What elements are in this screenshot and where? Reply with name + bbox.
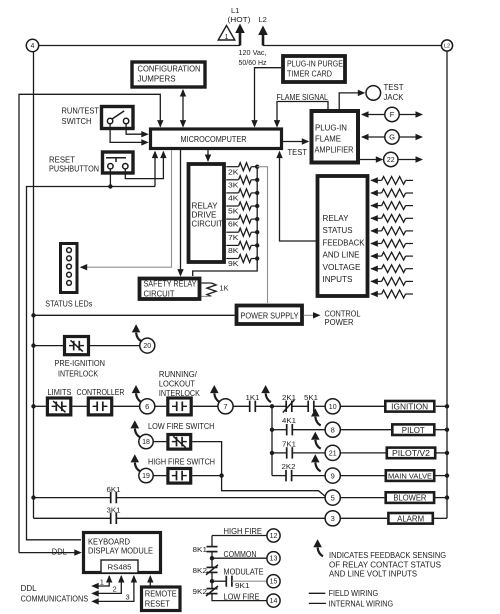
wire blower row — [34, 497, 111, 499]
svg-text:INDICATES FEEDBACK SENSING: INDICATES FEEDBACK SENSING — [329, 551, 446, 560]
node 9 — [325, 468, 340, 483]
relay coil 5K — [226, 205, 238, 207]
svg-text:SAFETY RELAY: SAFETY RELAY — [144, 280, 198, 289]
wire control power output (internal) — [304, 314, 319, 316]
node 12 — [267, 529, 280, 542]
relay coil 7K — [226, 231, 238, 233]
svg-text:CIRCUIT: CIRCUIT — [144, 290, 175, 299]
svg-text:MAIN VALVE: MAIN VALVE — [388, 472, 432, 481]
node 18 — [139, 434, 153, 448]
svg-text:RELAY: RELAY — [323, 214, 350, 223]
wire 5K1 to node 10 — [314, 405, 325, 407]
wire main valve row — [272, 475, 286, 477]
wire high fire row — [212, 535, 267, 537]
svg-text:8: 8 — [331, 425, 335, 434]
svg-text:L2: L2 — [444, 43, 450, 49]
svg-text:1: 1 — [100, 578, 104, 587]
svg-text:8K: 8K — [228, 246, 239, 255]
relay coil 2K — [226, 166, 238, 168]
wire remote reset to module — [149, 576, 151, 587]
svg-text:14: 14 — [270, 598, 278, 605]
plug-in purge timer card box — [283, 56, 345, 82]
relay coil 9K — [226, 258, 238, 260]
svg-text:L2: L2 — [259, 15, 267, 24]
status LED 2 — [67, 256, 72, 261]
svg-text:INTERNAL WIRING: INTERNAL WIRING — [329, 600, 394, 609]
wire alarm to L2 rail — [433, 517, 447, 519]
svg-text:7K1: 7K1 — [282, 439, 296, 448]
svg-text:L1: L1 — [231, 6, 239, 15]
ignition output box — [385, 401, 434, 412]
controller contact box — [88, 398, 111, 415]
wire node 21 to pilot/v2 box — [340, 452, 385, 454]
svg-text:AND LINE: AND LINE — [323, 251, 360, 260]
node 21 — [325, 445, 340, 460]
svg-text:PRE-IGNITION: PRE-IGNITION — [55, 359, 106, 368]
wire purge timer to microcomputer — [255, 68, 282, 127]
wire flame signal (amplifier to microcomputer) — [277, 102, 328, 127]
wire reset rail up to microcomputer — [154, 152, 156, 187]
wire L2 line to node L2 — [263, 45, 441, 47]
svg-text:4K1: 4K1 — [282, 416, 296, 425]
node coil 7K to bus — [255, 230, 259, 234]
node coil 9K to bus — [255, 256, 259, 260]
wire amplifier to test jack — [339, 93, 363, 110]
node common junction — [210, 556, 214, 560]
wire microcomputer to relay drive — [207, 150, 209, 161]
node 6 — [140, 399, 155, 414]
svg-text:FIELD WIRING: FIELD WIRING — [329, 589, 379, 598]
run/test switch symbol — [107, 118, 112, 123]
node coil 6K to bus — [255, 217, 259, 221]
feedback arrow node 9 — [315, 463, 320, 472]
node pre-ignition rail junction — [31, 343, 35, 347]
wire L2 right rail — [446, 51, 448, 518]
contact 2K2 — [285, 470, 287, 481]
svg-text:5K1: 5K1 — [304, 393, 318, 402]
node 14 — [267, 594, 280, 607]
svg-text:RESET: RESET — [145, 600, 170, 609]
relay coil 4K — [226, 192, 238, 194]
wire pilot row — [272, 429, 287, 431]
reset pushbutton S2 box — [103, 152, 134, 173]
node coil 4K to bus — [255, 191, 259, 195]
wire node 9 to main valve box — [340, 475, 384, 477]
wire ddl comm 1 — [93, 576, 109, 586]
reset pushbutton symbol — [108, 164, 113, 169]
wire 2K row to power supply (internal) — [257, 167, 267, 303]
wire 8K2 to modulate junction — [211, 573, 213, 589]
node 13 — [267, 552, 280, 565]
wire reset right contact to microcomputer — [125, 152, 163, 179]
feedback sense resistor input 3 — [370, 202, 378, 208]
svg-text:RESET: RESET — [49, 156, 75, 165]
wire ddl comm 3 — [93, 576, 134, 601]
svg-text:2K: 2K — [228, 167, 239, 176]
svg-text:COMMUNICATIONS: COMMUNICATIONS — [21, 595, 89, 604]
L1 (HOT) terminal arrow — [239, 31, 242, 46]
svg-text:CIRCUIT: CIRCUIT — [192, 220, 224, 229]
wire 9K2 to low fire row — [212, 594, 267, 601]
node L2 — [441, 40, 452, 51]
svg-text:5K: 5K — [228, 207, 239, 216]
node 5 — [325, 490, 340, 505]
svg-text:19: 19 — [142, 473, 150, 480]
plug-in flame amplifier box — [312, 111, 359, 163]
svg-text:MODULATE: MODULATE — [224, 568, 264, 577]
keyboard display module box — [84, 533, 161, 573]
feedback arrow node 18 — [135, 429, 140, 438]
remote reset box — [142, 587, 181, 611]
wire node 18 to low fire switch — [153, 441, 166, 443]
wire common row — [212, 557, 267, 559]
svg-text:FLAME SIGNAL: FLAME SIGNAL — [277, 93, 329, 102]
wire pre-ignition row — [34, 345, 140, 347]
wire low fire switch to fire feed — [192, 442, 221, 476]
svg-text:INPUTS: INPUTS — [323, 275, 353, 284]
svg-text:3K1: 3K1 — [107, 506, 121, 515]
svg-text:RELAY: RELAY — [192, 202, 219, 211]
svg-text:20: 20 — [143, 343, 151, 350]
contact 3K1 — [110, 513, 112, 524]
svg-text:TEST: TEST — [384, 83, 404, 92]
status LEDs box — [61, 244, 78, 293]
legend internal wiring — [309, 602, 326, 604]
relay status feedback box — [318, 176, 368, 296]
svg-text:PILOT/V2: PILOT/V2 — [392, 449, 431, 458]
svg-text:3: 3 — [331, 514, 335, 523]
svg-text:TIMER CARD: TIMER CARD — [287, 70, 332, 79]
feedback arrow at ignition junction — [266, 393, 271, 402]
feedback arrow node 21 — [315, 440, 320, 449]
svg-text:7: 7 — [223, 402, 227, 411]
svg-text:7K: 7K — [228, 233, 239, 242]
svg-text:10: 10 — [329, 404, 337, 411]
relay coil 3K — [226, 179, 238, 181]
feedback sense resistor input 10 — [370, 291, 378, 297]
svg-text:TEST: TEST — [288, 148, 308, 157]
svg-text:F: F — [390, 110, 395, 119]
wire L1 hot line from node 4 — [38, 45, 240, 47]
wire high fire switch to fire feed junction — [192, 475, 221, 477]
L2 terminal arrow — [262, 33, 265, 46]
wire 9K1 to node 15 (internal) — [232, 580, 267, 582]
svg-text:18: 18 — [142, 439, 150, 446]
feedback arrow node 8 — [315, 417, 320, 426]
svg-text:8K2: 8K2 — [193, 566, 208, 575]
svg-text:DRIVE: DRIVE — [192, 211, 217, 220]
svg-text:9K: 9K — [228, 259, 239, 268]
wire limits row — [34, 405, 46, 407]
svg-text:INTERLOCK: INTERLOCK — [58, 370, 99, 379]
svg-text:9: 9 — [331, 471, 335, 480]
svg-text:AMPLIFIER: AMPLIFIER — [315, 146, 354, 155]
svg-text:2K2: 2K2 — [282, 462, 296, 471]
svg-text:POWER: POWER — [325, 318, 354, 327]
contact 2K1 — [272, 405, 286, 407]
wire 8K1 to common junction — [211, 552, 213, 567]
svg-text:21: 21 — [329, 450, 337, 457]
node 22 — [359, 159, 382, 161]
svg-text:4K: 4K — [228, 194, 239, 203]
svg-text:5: 5 — [331, 493, 335, 502]
node F (flame rod terminal) — [362, 114, 385, 116]
wire left rail to microcomputer (from x=19) — [19, 94, 160, 552]
main valve output box — [386, 470, 434, 481]
svg-text:PILOT: PILOT — [402, 426, 425, 435]
wire 1K1 to junction — [255, 405, 272, 407]
contact 4K1 — [286, 424, 288, 435]
wire node 6 to running/lockout interlock — [155, 405, 167, 407]
wire node 7 to contact 1K1 — [233, 405, 250, 407]
contact 8K2 — [207, 566, 218, 568]
svg-text:REMOTE: REMOTE — [145, 590, 177, 599]
wire power supply to left rail — [34, 314, 235, 316]
feedback arrow node 19 — [135, 463, 140, 472]
wire relay status feedback to microcomputer — [280, 152, 317, 241]
wire ddl comm 2 — [93, 576, 121, 593]
configuration jumpers box — [132, 62, 205, 87]
svg-text:G: G — [389, 133, 395, 142]
svg-text:PLUG-IN PURGE: PLUG-IN PURGE — [287, 60, 343, 69]
svg-text:MICROCOMPUTER: MICROCOMPUTER — [181, 135, 247, 144]
feedback sense resistor input 7 — [370, 253, 378, 259]
node coil 3K to bus — [255, 178, 259, 182]
running/lockout interlock contact box — [168, 398, 191, 415]
feedback sense resistor input 5 — [370, 228, 378, 234]
svg-text:DDL: DDL — [21, 584, 38, 593]
svg-text:6: 6 — [145, 402, 149, 411]
svg-text:DISPLAY MODULE: DISPLAY MODULE — [88, 547, 153, 556]
svg-text:3: 3 — [126, 593, 130, 602]
node limits rail junction — [31, 404, 35, 408]
svg-text:RUNNING/: RUNNING/ — [159, 370, 198, 379]
pre-ignition interlock contact box — [65, 337, 89, 355]
node coil 2K to bus — [255, 165, 259, 169]
node 3 — [325, 511, 340, 526]
relay coil 6K — [226, 218, 238, 220]
node ignition junction — [270, 404, 274, 408]
node 4 (line voltage terminal) — [26, 39, 38, 51]
svg-text:AND LINE VOLT INPUTS: AND LINE VOLT INPUTS — [329, 570, 417, 579]
safety relay circuit box — [140, 279, 200, 300]
svg-text:120 Vac,: 120 Vac, — [239, 48, 267, 57]
status LED 1 — [67, 248, 72, 253]
node modulate junction — [210, 579, 214, 583]
feedback arrow node 6 — [136, 393, 141, 402]
node power rail junction — [31, 313, 35, 317]
svg-text:ALARM: ALARM — [397, 514, 424, 523]
wire limits to controller — [72, 405, 87, 407]
wire alarm row — [34, 517, 111, 519]
node 10 — [325, 399, 340, 414]
feedback sense resistor input 9 — [370, 278, 378, 284]
contact 8K1 — [207, 546, 218, 548]
node pilot/v2 junction — [270, 451, 274, 455]
wire pilot/v2 to L2 rail — [435, 452, 447, 454]
wire 2K2 to node 9 — [292, 475, 326, 477]
legend feedback arrow symbol — [318, 548, 323, 557]
blower output box — [386, 492, 434, 503]
wire microcomputer to status LEDs (internal) — [81, 150, 172, 267]
node 20 — [140, 338, 155, 353]
contact 5K1 — [307, 401, 309, 412]
wire test (microcomputer to amplifier) — [283, 141, 308, 143]
svg-text:9K2: 9K2 — [193, 587, 208, 596]
warning triangle 1 — [218, 26, 235, 41]
wire pilot/v2 row — [272, 452, 287, 454]
status LED 4 — [67, 272, 72, 277]
wire ignition junction down feed — [271, 406, 273, 475]
svg-text:FEEDBACK: FEEDBACK — [323, 238, 366, 247]
svg-text:(HOT): (HOT) — [228, 15, 252, 24]
relay coil 1K — [202, 282, 212, 284]
wire reset left contact to rail junction — [109, 169, 111, 187]
svg-text:BLOWER: BLOWER — [393, 494, 426, 503]
svg-text:HIGH FIRE SWITCH: HIGH FIRE SWITCH — [148, 458, 215, 467]
test jack — [366, 86, 381, 101]
svg-text:15: 15 — [270, 579, 278, 586]
svg-text:2: 2 — [113, 585, 117, 594]
pilot output box — [392, 424, 434, 435]
wire firing rate chain — [211, 536, 213, 547]
svg-text:22: 22 — [387, 157, 395, 164]
node coil 5K to bus — [255, 204, 259, 208]
svg-text:POWER SUPPLY: POWER SUPPLY — [241, 312, 300, 321]
node 19 — [139, 468, 153, 482]
wire config jumpers to microcomputer (double arrow) — [182, 90, 184, 126]
wire relay coil bus to safety relay — [193, 167, 258, 276]
feedback sense resistor input 4 — [370, 215, 378, 221]
run/test switch S1 box — [102, 107, 134, 129]
wire fire feed to blower — [222, 476, 326, 497]
power supply box — [237, 306, 303, 325]
node 7 — [218, 399, 233, 414]
wire 6K1 to node 5 — [116, 497, 325, 499]
svg-text:1K: 1K — [220, 284, 229, 293]
wire ignition to L2 rail — [436, 405, 447, 407]
svg-text:LIMITS: LIMITS — [48, 388, 72, 397]
svg-text:VOLTAGE: VOLTAGE — [323, 263, 361, 272]
alarm output box — [388, 513, 432, 524]
contact 9K2 — [207, 588, 218, 590]
wire DDL arrow into module — [19, 552, 80, 554]
svg-text:LOW FIRE SWITCH: LOW FIRE SWITCH — [148, 422, 215, 431]
wire node 10 to ignition box — [340, 405, 384, 407]
node fire feed junction — [219, 473, 223, 477]
svg-text:RS485: RS485 — [108, 563, 132, 572]
svg-text:4: 4 — [31, 43, 35, 50]
svg-text:STATUS: STATUS — [323, 226, 353, 235]
svg-text:OF RELAY CONTACT STATUS: OF RELAY CONTACT STATUS — [329, 560, 441, 569]
wire 4K1 to node 8 — [292, 429, 325, 431]
svg-text:2K1: 2K1 — [282, 393, 296, 402]
svg-text:13: 13 — [270, 556, 278, 563]
svg-text:PLUG-IN: PLUG-IN — [315, 124, 347, 133]
legend field wiring — [309, 592, 326, 594]
relay drive circuit box — [189, 164, 225, 262]
wire blower to L2 rail — [434, 497, 447, 499]
svg-text:COMMON: COMMON — [224, 550, 257, 559]
wire node 19 to high fire switch — [153, 475, 166, 477]
svg-text:SWITCH: SWITCH — [62, 117, 92, 126]
svg-text:FLAME: FLAME — [315, 135, 341, 144]
wire controller to node 6 — [113, 405, 139, 407]
svg-text:JACK: JACK — [384, 93, 405, 102]
status LED 5 — [67, 281, 72, 286]
status LED 3 — [67, 264, 72, 269]
limits contact box — [47, 398, 70, 415]
node coil 8K to bus — [255, 243, 259, 247]
contact 6K1 — [110, 492, 112, 503]
wire run/test to microcomputer — [110, 124, 147, 143]
wire reset rail (x=26.5) — [27, 187, 156, 540]
wire RLI to node 7 — [193, 405, 218, 407]
node pilot junction — [270, 428, 274, 432]
svg-text:RUN/TEST: RUN/TEST — [62, 107, 100, 116]
wire node4 down rail — [33, 51, 35, 518]
microcomputer U1 box — [151, 129, 282, 149]
svg-text:1: 1 — [225, 34, 229, 41]
svg-text:6K: 6K — [228, 220, 239, 229]
svg-text:12: 12 — [270, 533, 278, 540]
svg-text:CONTROLLER: CONTROLLER — [77, 388, 125, 397]
svg-text:6K1: 6K1 — [107, 485, 121, 494]
feedback sense resistor input 2 — [370, 190, 378, 196]
svg-text:INTERLOCK: INTERLOCK — [159, 389, 201, 398]
svg-text:LOCKOUT: LOCKOUT — [159, 380, 195, 389]
node G (ground terminal) — [362, 136, 385, 138]
low fire switch contact box — [168, 435, 191, 450]
svg-text:1K1: 1K1 — [246, 393, 260, 402]
contact 9K1 — [225, 576, 227, 587]
pilot/v2 output box — [387, 448, 435, 459]
feedback sense resistor input 6 — [370, 240, 378, 246]
wire node 5 to blower box — [340, 497, 384, 499]
svg-text:JUMPERS: JUMPERS — [138, 75, 176, 84]
wire 3K1 to node 3 — [116, 517, 325, 519]
relay coil 8K — [226, 244, 238, 246]
svg-text:IGNITION: IGNITION — [391, 402, 428, 411]
wire 2K1 to 5K1 — [292, 405, 308, 407]
wire pilot to L2 rail — [435, 429, 447, 431]
wire node 3 to alarm box — [340, 517, 387, 519]
feedback arrow node 7 — [214, 393, 219, 402]
high fire switch contact box — [168, 469, 191, 484]
svg-text:CONFIGURATION: CONFIGURATION — [138, 65, 201, 74]
contact 7K1 — [286, 447, 288, 458]
feedback arrow node 20 — [136, 333, 141, 342]
wire node 8 to pilot box — [340, 429, 391, 431]
contact 1K1 — [249, 401, 251, 412]
feedback sense resistor input 8 — [370, 266, 378, 272]
svg-text:8K1: 8K1 — [193, 545, 208, 554]
svg-text:KEYBOARD: KEYBOARD — [88, 538, 130, 547]
wire modulate row — [212, 580, 226, 582]
svg-text:9K1: 9K1 — [235, 581, 250, 590]
feedback sense resistor input 1 — [370, 177, 378, 183]
wire main valve to L2 rail — [434, 475, 447, 477]
node blower rail junction — [31, 495, 35, 499]
svg-text:STATUS LEDs: STATUS LEDs — [45, 300, 92, 309]
svg-text:50/60 Hz: 50/60 Hz — [239, 58, 267, 67]
node 15 — [267, 575, 280, 588]
svg-text:3K: 3K — [228, 180, 239, 189]
svg-text:HIGH FIRE: HIGH FIRE — [224, 527, 263, 536]
node 8 — [325, 422, 340, 437]
svg-text:PUSHBUTTON: PUSHBUTTON — [49, 165, 99, 174]
RS485 box — [101, 560, 138, 573]
